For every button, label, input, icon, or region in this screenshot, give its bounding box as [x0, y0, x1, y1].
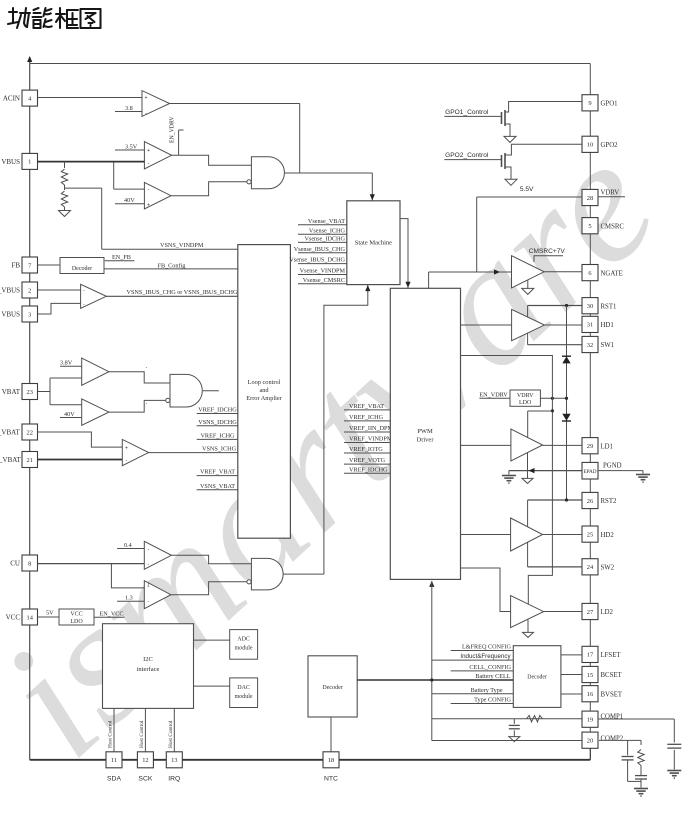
svg-text:Type CONFIG: Type CONFIG — [474, 697, 511, 704]
svg-text:PGND: PGND — [603, 463, 622, 470]
svg-text:VDRV: VDRV — [517, 393, 534, 399]
svg-text:26: 26 — [587, 498, 593, 505]
svg-text:+: + — [147, 203, 150, 209]
svg-text:ADC: ADC — [237, 637, 250, 643]
svg-text:1: 1 — [28, 159, 31, 166]
svg-text:5: 5 — [588, 223, 591, 230]
svg-text:LD1: LD1 — [601, 443, 613, 450]
svg-text:SDA: SDA — [107, 776, 121, 783]
svg-text:VREF_VINDPM: VREF_VINDPM — [349, 436, 393, 443]
svg-text:40V: 40V — [64, 411, 75, 418]
svg-text:27: 27 — [587, 609, 594, 616]
svg-text:28: 28 — [587, 195, 593, 202]
svg-text:22: 22 — [27, 429, 33, 436]
svg-text:Loop control: Loop control — [248, 379, 281, 386]
svg-text:CMSRC: CMSRC — [601, 223, 625, 230]
svg-text:BCSET: BCSET — [601, 672, 623, 679]
svg-text:N_VBAT: N_VBAT — [0, 456, 22, 464]
svg-text:14: 14 — [27, 614, 34, 621]
svg-text:L&FREQ CONFIG: L&FREQ CONFIG — [462, 644, 512, 651]
svg-text:VBUS: VBUS — [1, 311, 20, 319]
svg-text:Host Control: Host Control — [168, 720, 174, 748]
svg-text:Vsense_CMSRC: Vsense_CMSRC — [303, 277, 345, 284]
svg-text:P_VBAT: P_VBAT — [0, 429, 20, 437]
svg-text:VREF_IIN_DPM: VREF_IIN_DPM — [349, 425, 394, 432]
svg-text:VSNS_IDCHG: VSNS_IDCHG — [198, 419, 237, 426]
svg-text:GPO1: GPO1 — [601, 101, 618, 108]
svg-text:Battery CELL: Battery CELL — [475, 673, 510, 680]
svg-text:3: 3 — [28, 311, 31, 318]
svg-text:6: 6 — [588, 270, 591, 277]
svg-text:EN_VCC: EN_VCC — [100, 611, 124, 618]
svg-text:VCC: VCC — [6, 614, 21, 622]
svg-text:GPO2: GPO2 — [601, 142, 619, 149]
svg-text:Induct&Frequency: Induct&Frequency — [460, 653, 511, 660]
svg-text:LDO: LDO — [70, 619, 83, 625]
svg-text:VREF_VBAT: VREF_VBAT — [200, 469, 235, 476]
svg-text:VSNS_VINDPM: VSNS_VINDPM — [160, 242, 204, 249]
svg-text:COMP2: COMP2 — [601, 736, 624, 743]
svg-text:17: 17 — [587, 652, 594, 659]
svg-text:VREF_VOTG: VREF_VOTG — [349, 457, 386, 464]
svg-text:32: 32 — [587, 342, 593, 349]
svg-text:10: 10 — [587, 142, 593, 149]
svg-text:VDRV: VDRV — [601, 190, 620, 197]
svg-text:1.3: 1.3 — [125, 595, 133, 602]
svg-text:VSNS_VBAT: VSNS_VBAT — [200, 483, 235, 490]
svg-text:29: 29 — [587, 443, 593, 450]
svg-text:21: 21 — [27, 457, 33, 464]
svg-text:EN_VDRV: EN_VDRV — [479, 391, 508, 398]
svg-text:Vsense_IBUS_DCHG: Vsense_IBUS_DCHG — [289, 257, 345, 264]
svg-text:LD2: LD2 — [601, 609, 614, 616]
svg-text:5V: 5V — [46, 610, 54, 617]
svg-text:ACIN: ACIN — [3, 95, 20, 103]
svg-text:VREF_IDCHG: VREF_IDCHG — [198, 407, 237, 414]
svg-text:Host Control: Host Control — [108, 720, 114, 748]
svg-text:Vsense_VINDPM: Vsense_VINDPM — [300, 268, 346, 275]
svg-text:VREF_ICHG: VREF_ICHG — [349, 414, 384, 421]
svg-text:Vsense_IDCHG: Vsense_IDCHG — [304, 236, 345, 243]
svg-text:23: 23 — [27, 389, 33, 396]
svg-text:Vsense_IBUS_CHG: Vsense_IBUS_CHG — [294, 246, 346, 253]
svg-text:VREF_IOTG: VREF_IOTG — [349, 446, 383, 453]
svg-text:RST1: RST1 — [601, 303, 617, 310]
svg-text:CELL_CONFIG: CELL_CONFIG — [469, 664, 511, 671]
svg-text:BVSET: BVSET — [601, 691, 623, 698]
svg-text:RST2: RST2 — [601, 498, 617, 505]
svg-text:Decoder: Decoder — [72, 266, 92, 272]
svg-text:3.5V: 3.5V — [125, 143, 138, 150]
svg-text:CMSRC+7V: CMSRC+7V — [529, 248, 566, 255]
svg-text:PWM: PWM — [417, 428, 433, 435]
svg-text:GPO1_Control: GPO1_Control — [445, 109, 489, 116]
svg-text:SW2: SW2 — [601, 565, 615, 572]
svg-text:9: 9 — [588, 100, 591, 107]
svg-text:FB: FB — [11, 262, 20, 270]
svg-text:13: 13 — [171, 757, 177, 764]
svg-text:VSNS_IBUS_CHG or VSNS_IBUS_DCH: VSNS_IBUS_CHG or VSNS_IBUS_DCHG — [127, 289, 238, 296]
svg-text:VREF_VBAT: VREF_VBAT — [349, 403, 384, 410]
svg-text:State Machine: State Machine — [355, 239, 392, 246]
svg-text:31: 31 — [587, 322, 593, 329]
svg-text:Battery Type: Battery Type — [471, 687, 503, 694]
svg-text:VREF_ICHG: VREF_ICHG — [200, 433, 235, 440]
svg-text:LDO: LDO — [519, 400, 532, 406]
svg-text:VBAT: VBAT — [2, 388, 21, 396]
svg-text:+: + — [145, 95, 148, 101]
svg-text:IRQ: IRQ — [168, 776, 180, 783]
svg-text:20: 20 — [587, 738, 593, 745]
svg-text:VCC: VCC — [70, 612, 82, 618]
svg-text:Vsense_ICHG: Vsense_ICHG — [309, 227, 346, 234]
svg-text:FB_Config: FB_Config — [158, 262, 186, 269]
svg-text:SW1: SW1 — [601, 342, 615, 349]
svg-text:30: 30 — [587, 303, 593, 310]
svg-text:11: 11 — [111, 757, 117, 764]
svg-text:GPO2_Control: GPO2_Control — [445, 152, 489, 159]
svg-text:3.8: 3.8 — [125, 105, 133, 112]
svg-text:16: 16 — [587, 691, 593, 698]
svg-text:VBUS: VBUS — [1, 158, 20, 166]
svg-text:24: 24 — [587, 564, 594, 571]
svg-text:DAC: DAC — [237, 685, 250, 691]
svg-text:VREF_IDCHG: VREF_IDCHG — [349, 466, 388, 473]
svg-text:12: 12 — [142, 757, 148, 764]
svg-text:CU: CU — [10, 560, 20, 568]
svg-text:Vsense_VBAT: Vsense_VBAT — [308, 218, 345, 225]
svg-text:I2C: I2C — [143, 656, 153, 663]
svg-text:25: 25 — [587, 531, 593, 538]
svg-text:HD1: HD1 — [601, 322, 614, 329]
svg-text:SCK: SCK — [138, 776, 152, 783]
svg-text:module: module — [235, 694, 253, 700]
svg-text:40V: 40V — [124, 197, 135, 204]
svg-text:VSNS_ICHG: VSNS_ICHG — [202, 445, 237, 452]
svg-text:8: 8 — [28, 560, 31, 567]
svg-text:and: and — [259, 387, 269, 394]
svg-text:Driver: Driver — [417, 437, 435, 444]
svg-text:18: 18 — [328, 757, 334, 764]
svg-text:LFSET: LFSET — [601, 652, 622, 659]
svg-text:HD2: HD2 — [601, 532, 615, 539]
svg-text:+: + — [125, 445, 128, 451]
svg-text:19: 19 — [587, 717, 593, 724]
svg-text:15: 15 — [587, 672, 593, 679]
svg-text:5.5V: 5.5V — [520, 186, 534, 193]
svg-text:NTC: NTC — [324, 776, 338, 783]
svg-text:1: 1 — [147, 583, 150, 588]
svg-text:P_VBUS: P_VBUS — [0, 287, 20, 295]
svg-text:2: 2 — [28, 287, 31, 294]
svg-text:module: module — [235, 646, 253, 652]
svg-text:EN_VDRV: EN_VDRV — [170, 116, 176, 143]
svg-text:EN_FB: EN_FB — [112, 254, 131, 261]
svg-text:0.4: 0.4 — [124, 542, 132, 549]
svg-text:Error Amplier: Error Amplier — [246, 395, 282, 402]
svg-text:Decoder: Decoder — [527, 675, 547, 681]
svg-text:EPAD: EPAD — [583, 469, 596, 475]
svg-text:interface: interface — [137, 666, 160, 673]
svg-text:+: + — [147, 148, 150, 154]
svg-text:Host Control: Host Control — [139, 720, 145, 748]
svg-text:NGATE: NGATE — [601, 270, 623, 277]
svg-text:3.8V: 3.8V — [60, 360, 73, 367]
svg-text:Decoder: Decoder — [322, 685, 342, 691]
